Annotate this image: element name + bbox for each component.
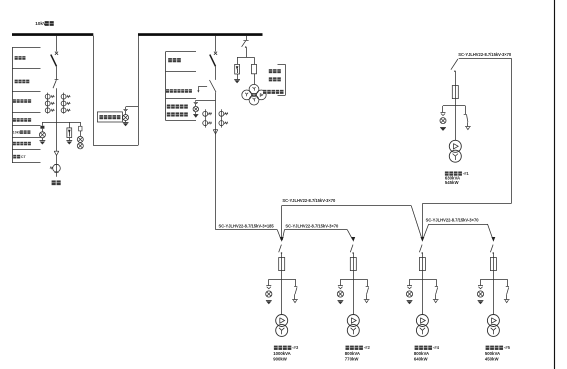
svg-text:-#4: -#4 <box>433 345 440 350</box>
svg-text:900kW: 900kW <box>273 357 288 362</box>
svg-text:-#5: -#5 <box>504 345 511 350</box>
svg-text:-#3: -#3 <box>292 345 299 350</box>
svg-text:1000kVA: 1000kVA <box>273 351 291 356</box>
svg-text:800kVA: 800kVA <box>414 351 429 356</box>
svg-text:500kVA: 500kVA <box>485 351 500 356</box>
svg-text:SC-YJLHV22-8.7/15kV-3×185: SC-YJLHV22-8.7/15kV-3×185 <box>219 223 275 228</box>
svg-text:770kW: 770kW <box>345 357 360 362</box>
svg-text:SC-YJLHV22-8.7/15kV-3×70: SC-YJLHV22-8.7/15kV-3×70 <box>426 217 480 222</box>
svg-text:-#1: -#1 <box>463 171 470 176</box>
svg-text:-#2: -#2 <box>364 345 371 350</box>
svg-text:640kW: 640kW <box>414 357 429 362</box>
svg-text:SC-YJLHV22-8.7/15kV-3×70: SC-YJLHV22-8.7/15kV-3×70 <box>285 223 339 228</box>
svg-text:800kVA: 800kVA <box>345 351 360 356</box>
svg-text:CT: CT <box>21 155 27 159</box>
svg-text:SC-YJLHV22-8.7/15kV-3×70: SC-YJLHV22-8.7/15kV-3×70 <box>282 198 336 203</box>
svg-text:545kW: 545kW <box>445 180 460 185</box>
svg-text:450kW: 450kW <box>485 357 500 362</box>
svg-text:SC-YJLHV22-8.7/15kV-3×70: SC-YJLHV22-8.7/15kV-3×70 <box>458 52 512 57</box>
